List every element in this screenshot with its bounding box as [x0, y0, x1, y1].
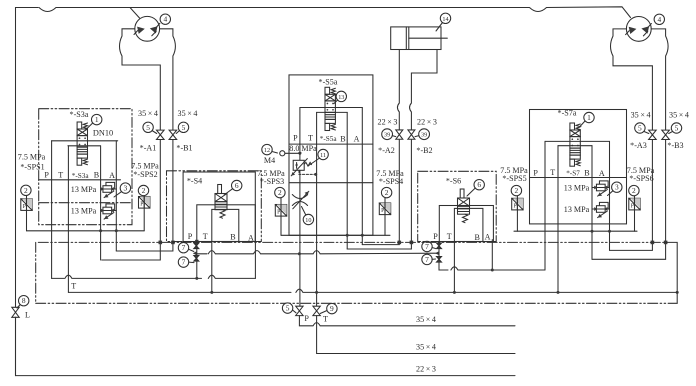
pipe 35x4 first — [299, 316, 515, 326]
relief valve 13MPa upper-left — [103, 182, 115, 197]
junction B limb bus r — [591, 230, 594, 233]
svg-text:1: 1 — [95, 115, 99, 124]
svg-text:A: A — [354, 135, 360, 144]
check valve 7 lower (S6) — [437, 257, 442, 263]
svg-text:9: 9 — [330, 304, 334, 313]
balloon 2 (SPS1) — [21, 185, 31, 195]
svg-text:T: T — [323, 315, 328, 324]
svg-text:T: T — [550, 168, 555, 177]
svg-text:8: 8 — [22, 296, 26, 305]
valve S6 (2-position) — [458, 189, 470, 223]
wire P limb center — [299, 108, 301, 307]
svg-text:2: 2 — [24, 186, 28, 195]
balloon 10 — [303, 214, 313, 224]
balloon 1 (valve S3a) — [92, 114, 102, 124]
junction P bus S4 — [210, 291, 213, 294]
wire relief upper-left conns — [101, 188, 117, 190]
junction B limb bus c — [346, 234, 349, 237]
shutoff valve 39 on A2 — [396, 130, 403, 139]
junction P bus S6 — [453, 291, 456, 294]
balloon 4 (right motor) — [654, 14, 664, 24]
station chain line lower — [36, 302, 678, 304]
svg-text:*-A2: *-A2 — [378, 146, 395, 155]
directional valve S7a — [570, 123, 580, 166]
balloon 3 (right reliefs) — [612, 182, 622, 192]
wire bracket A2 — [362, 140, 399, 245]
svg-text:2: 2 — [385, 188, 389, 197]
svg-text:35 × 4: 35 × 4 — [138, 109, 158, 118]
svg-text:P: P — [277, 210, 280, 216]
svg-text:2: 2 — [515, 186, 519, 195]
test valve 5 (P) — [296, 306, 303, 315]
pipe 22x3 bottom — [16, 317, 516, 375]
station chain left edge — [35, 242, 37, 303]
wire S6 A to line — [491, 240, 493, 270]
svg-text:P: P — [23, 204, 26, 210]
svg-text:7: 7 — [182, 258, 186, 267]
junction A limb bus — [115, 229, 118, 232]
shutoff valve 5 on A3 — [649, 130, 657, 139]
balloon 14 — [440, 13, 450, 23]
svg-text:T: T — [308, 134, 313, 143]
svg-text:13 MPa: 13 MPa — [71, 185, 97, 194]
svg-text:P: P — [304, 314, 309, 323]
balloon 9 (T test) — [327, 303, 337, 313]
balloon 3 (left reliefs) — [120, 183, 130, 193]
motor right-right arrow — [641, 26, 649, 33]
svg-text:13 MPa: 13 MPa — [71, 207, 97, 216]
wire cyl left port — [397, 50, 399, 131]
wire SPS6 drain — [634, 196, 636, 231]
junction S6 A — [491, 269, 494, 272]
wire A3 bracket — [610, 140, 653, 251]
svg-text:11: 11 — [320, 152, 326, 159]
svg-text:35 × 4: 35 × 4 — [631, 110, 651, 119]
wire B limb center — [346, 112, 348, 249]
svg-text:*-S7a: *-S7a — [558, 108, 577, 117]
junction B3-P bus — [676, 291, 679, 294]
svg-text:1: 1 — [587, 113, 591, 122]
svg-text:22 × 3: 22 × 3 — [378, 118, 398, 127]
shutoff valve 5 on A1 — [157, 130, 165, 139]
svg-text:7: 7 — [425, 255, 429, 264]
balloon 6 (valve S6) — [474, 180, 484, 190]
wire T limb right — [557, 146, 559, 293]
relief valve 13MPa upper-right — [596, 181, 608, 196]
junction B limb bus — [99, 229, 102, 232]
junction square A2 chain — [398, 241, 402, 245]
balloon 5 (B3) — [671, 123, 681, 133]
wire S6 checks line — [439, 241, 545, 270]
left header line — [39, 179, 121, 181]
junction P bus Ttest — [315, 291, 318, 294]
relief valve 11 (8.0 MPa) — [293, 160, 304, 170]
drain shutoff valve 8 — [12, 307, 19, 317]
balloon 7 upper (S4) — [178, 243, 188, 253]
wire B1 lower — [116, 140, 173, 252]
svg-text:B: B — [340, 135, 345, 144]
wire SPS1 drain — [26, 196, 28, 231]
svg-text:*-SPS6: *-SPS6 — [629, 174, 653, 183]
svg-text:DN10: DN10 — [93, 128, 113, 137]
svg-text:*-S7: *-S7 — [566, 170, 580, 178]
check valve 7 upper (S4) — [194, 243, 199, 249]
S6 middle box — [439, 206, 493, 242]
svg-text:*-S3a: *-S3a — [72, 172, 90, 180]
svg-text:P: P — [381, 208, 384, 214]
balloon 39 (B2) — [419, 129, 430, 140]
balloon 8 — [19, 296, 29, 306]
svg-text:39: 39 — [421, 132, 427, 139]
junction S4 checks mid — [193, 251, 197, 255]
junction pilot-Ptest — [298, 252, 301, 255]
svg-text:10: 10 — [305, 217, 311, 224]
svg-text:13: 13 — [338, 94, 344, 101]
svg-text:5: 5 — [638, 124, 642, 133]
junction square B2 chain — [410, 241, 414, 245]
station chain line upper — [38, 241, 667, 243]
wire pi2 center (T-B) — [317, 111, 348, 113]
svg-text:2: 2 — [278, 188, 282, 197]
pressure switch SPS2 — [139, 197, 150, 209]
right group manifold box — [530, 110, 627, 224]
balloon 39 (A2) — [382, 129, 393, 140]
wire right motor left port A3 — [611, 29, 653, 130]
balloon 7 upper (S6) — [422, 241, 432, 251]
wire B3 bracket — [592, 140, 666, 260]
wire cyl right port — [410, 50, 437, 131]
wire top drain line mid — [130, 7, 631, 18]
wire relief UR conns — [592, 187, 610, 189]
svg-text:P: P — [533, 168, 538, 177]
pressure switch SPS3 — [275, 205, 286, 217]
svg-text:5: 5 — [146, 123, 150, 132]
motor right-left arrow — [629, 27, 637, 34]
pressure switch SPS6 — [629, 198, 640, 210]
wire relief lower-left conns — [101, 210, 117, 212]
svg-text:P: P — [188, 232, 193, 241]
svg-text:*-S4: *-S4 — [187, 177, 202, 186]
svg-text:B: B — [474, 233, 479, 242]
check valve 7 upper (S6) — [437, 243, 442, 249]
svg-text:*-A1: *-A1 — [140, 144, 157, 153]
pressure switch SPS5 — [512, 198, 523, 210]
valve S4 (2-position) — [215, 185, 227, 219]
S6 manifold chain box — [418, 171, 497, 241]
wire pi1 left (P-A bridge) — [52, 140, 118, 142]
svg-text:A: A — [248, 233, 254, 242]
wire motor right port B1 — [160, 29, 176, 130]
center header line — [289, 143, 373, 145]
wire SPS5 drain — [516, 196, 518, 231]
balloon 11 — [318, 149, 328, 159]
svg-text:*-SPS1: *-SPS1 — [20, 163, 44, 172]
svg-text:T: T — [203, 232, 208, 241]
wire B limb right — [591, 146, 593, 260]
svg-text:T: T — [71, 282, 76, 291]
svg-text:P: P — [513, 203, 516, 209]
balloon 2 (SPS4) — [381, 187, 391, 197]
svg-text:6: 6 — [477, 180, 481, 189]
junction square A1 chain — [159, 241, 163, 245]
svg-text:*-S5a: *-S5a — [320, 135, 338, 143]
svg-text:A: A — [599, 169, 605, 178]
junction S6 checks mid — [435, 251, 439, 255]
svg-text:T: T — [58, 171, 63, 180]
motor left arrow — [137, 27, 145, 34]
balloon 2 (SPS3) — [275, 187, 285, 197]
svg-text:5: 5 — [286, 304, 290, 313]
svg-text:7.5 MPa: 7.5 MPa — [18, 153, 46, 162]
svg-text:*-B3: *-B3 — [667, 141, 683, 150]
svg-text:12: 12 — [264, 147, 270, 154]
svg-text:P: P — [44, 171, 49, 180]
wire pilot line S4-S6 — [197, 251, 439, 254]
test valve 9 (T) — [313, 306, 320, 315]
svg-text:M4: M4 — [264, 156, 275, 165]
wire T limb left — [67, 146, 69, 293]
shutoff valve 39 on B2 — [408, 130, 415, 139]
center mid line — [289, 182, 373, 184]
wire right motor right port B3 — [651, 29, 668, 130]
hydraulic cylinder 14 — [391, 27, 441, 50]
wire pi2 right (T-B) — [558, 145, 592, 147]
center bottom bus — [281, 234, 390, 236]
balloon 4 (left motor) — [160, 14, 170, 24]
svg-text:5: 5 — [182, 123, 186, 132]
balloon 2 (SPS6) — [629, 185, 639, 195]
S4 middle box — [197, 205, 256, 242]
svg-text:5: 5 — [675, 124, 679, 133]
balloon 7 lower (S6) — [422, 254, 432, 264]
relief valve 13MPa lower-right — [596, 202, 608, 217]
svg-text:4: 4 — [657, 15, 661, 24]
wire SPS2 drain — [143, 196, 145, 231]
wire bracket B2 — [347, 140, 411, 250]
balloon 12 (gauge M4) — [262, 144, 272, 154]
S4 inner box — [212, 209, 239, 241]
pipe 35x4 second — [317, 316, 515, 354]
balloon 7 lower (S4) — [178, 257, 188, 267]
wire pi1 right (P-A) — [545, 140, 610, 142]
svg-text:P: P — [631, 203, 634, 209]
P bus — [68, 289, 677, 292]
svg-text:*-SPS5: *-SPS5 — [502, 174, 526, 183]
wire P limb right — [544, 141, 546, 270]
S6 inner box — [454, 208, 483, 241]
svg-text:*-SPS3: *-SPS3 — [260, 177, 284, 186]
svg-text:35 × 4: 35 × 4 — [416, 343, 436, 352]
svg-text:35 × 4: 35 × 4 — [178, 109, 198, 118]
S4 manifold chain box — [167, 171, 262, 242]
balloon 5 (A3) — [635, 123, 645, 133]
junction P bus right T — [557, 291, 560, 294]
svg-text:3: 3 — [124, 184, 128, 193]
svg-text:4: 4 — [163, 15, 167, 24]
pressure switch SPS4 — [379, 203, 390, 215]
svg-text:A: A — [485, 232, 491, 241]
wire relief LR conns — [592, 208, 610, 210]
svg-text:35 × 4: 35 × 4 — [669, 110, 689, 119]
left group chain partition — [39, 202, 132, 204]
wire relief11 pilot — [299, 170, 316, 174]
junction square B1 chain — [171, 241, 175, 245]
svg-text:3: 3 — [615, 183, 619, 192]
wire B limb left — [100, 146, 102, 260]
wire SPS3 drain — [280, 198, 282, 235]
balloon 1 (valve S7a) — [584, 112, 594, 122]
balloon 2 (SPS5) — [511, 185, 521, 195]
left group bottom bus — [27, 230, 145, 232]
check valve 7 lower (S4) — [194, 256, 199, 262]
wire A limb left — [115, 141, 117, 251]
directional valve S3a — [77, 122, 87, 165]
right header line — [530, 177, 627, 179]
wire S4 checks line — [196, 241, 198, 278]
svg-text:B: B — [94, 171, 99, 180]
balloon 6 (valve S4) — [232, 180, 242, 190]
balloon 5 (B1 valve) — [178, 122, 188, 132]
right group bottom bus — [514, 230, 637, 232]
svg-text:2: 2 — [142, 186, 146, 195]
svg-text:22 × 3: 22 × 3 — [417, 118, 437, 127]
wire motor left port A1 — [120, 29, 161, 130]
svg-text:P: P — [293, 134, 298, 143]
S4 box junction square — [195, 240, 198, 243]
pressure switch SPS1 — [21, 199, 32, 211]
hydraulic motor 4 (right) — [626, 17, 651, 42]
wire A limb right — [609, 141, 611, 250]
hydraulic motor 4 (left) — [135, 16, 160, 41]
shutoff valve 5 on B1 — [169, 130, 177, 139]
T bus — [52, 275, 256, 278]
relief valve 13MPa lower-left — [103, 204, 115, 219]
svg-text:T: T — [447, 232, 452, 241]
wire P limb left — [51, 141, 53, 279]
wire S6 Bext to P bus — [453, 241, 455, 292]
svg-text:B: B — [230, 233, 235, 242]
junction P limb 8MPa — [298, 152, 301, 155]
balloon 5 (P test) — [282, 303, 292, 313]
junction T bus checks — [195, 277, 198, 280]
svg-text:2: 2 — [632, 186, 636, 195]
svg-text:B: B — [584, 168, 589, 177]
wire pi1 center (P-A) — [300, 107, 362, 109]
balloon 13 (valve S5a) — [336, 91, 346, 101]
svg-text:35 × 4: 35 × 4 — [416, 315, 436, 324]
svg-text:A: A — [109, 171, 115, 180]
svg-text:14: 14 — [442, 16, 448, 23]
motor right arrow — [150, 26, 158, 33]
S4 outer solid box — [183, 172, 255, 242]
svg-text:P: P — [433, 232, 438, 241]
wire A1 lower — [102, 140, 161, 261]
left group manifold chain box — [39, 109, 132, 225]
svg-text:P: P — [140, 202, 143, 208]
svg-text:22 × 3: 22 × 3 — [416, 365, 436, 374]
wire B3 to P bus — [666, 242, 678, 303]
svg-text:8.0 MPa: 8.0 MPa — [289, 144, 317, 153]
svg-text:6: 6 — [235, 181, 239, 190]
svg-text:*-S5a: *-S5a — [319, 78, 338, 87]
svg-text:*-A3: *-A3 — [630, 141, 647, 150]
svg-text:*-S3a: *-S3a — [70, 110, 89, 119]
wire pi2 left (T-B bridge) — [68, 145, 100, 147]
junction square B3 chain — [664, 241, 668, 245]
svg-text:L: L — [25, 311, 30, 320]
S5a manifold box — [289, 75, 373, 235]
svg-text:13 MPa: 13 MPa — [564, 184, 590, 193]
junction A limb bus c2 — [361, 234, 364, 237]
throttle valve 10 — [292, 191, 309, 209]
svg-text:*-B2: *-B2 — [416, 146, 432, 155]
wire T limb center — [316, 112, 318, 306]
balloon 5 (A1 valve) — [143, 122, 153, 132]
wire A limb center — [361, 108, 363, 245]
junction A limb bus r — [608, 230, 611, 233]
svg-text:*-B1: *-B1 — [176, 144, 192, 153]
wire S4 B-ext to P bus — [211, 241, 213, 292]
wire top drain line — [16, 8, 140, 376]
svg-text:13 MPa: 13 MPa — [564, 205, 590, 214]
junction relief11 pilot — [314, 173, 317, 176]
svg-text:*-S6: *-S6 — [446, 177, 461, 186]
svg-text:7: 7 — [425, 242, 429, 251]
junction square A3 chain — [651, 241, 655, 245]
gauge port M4 — [280, 151, 300, 156]
balloon 2 (SPS2) — [138, 185, 148, 195]
svg-text:39: 39 — [384, 132, 390, 139]
svg-text:7: 7 — [182, 243, 186, 252]
svg-text:*-SPS2: *-SPS2 — [133, 170, 157, 179]
shutoff valve 5 on B3 — [662, 130, 670, 139]
directional valve S5a — [325, 87, 335, 130]
wire SPS4 drain — [384, 198, 386, 235]
wire S4 A-ext to T bus — [254, 241, 256, 278]
